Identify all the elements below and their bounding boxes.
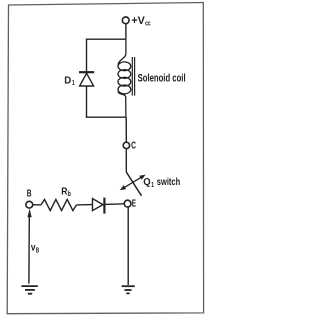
transistor Q1 switch blade — [126, 172, 141, 196]
svg-text:E: E — [132, 198, 136, 209]
wire top rail — [87, 39, 126, 72]
svg-text:D: D — [64, 74, 71, 86]
wire Vcc to top rail — [125, 24, 127, 39]
wire diode to node E — [104, 203, 124, 206]
svg-text:+V: +V — [131, 15, 145, 27]
wire E to ground — [127, 207, 129, 285]
svg-text:C: C — [131, 141, 136, 152]
resistor Rb — [41, 199, 77, 210]
label +Vcc — [131, 15, 150, 27]
node +Vcc terminal — [122, 17, 129, 24]
node C — [123, 142, 129, 148]
svg-text:switch: switch — [157, 177, 180, 188]
wire bottom rail to node C — [125, 117, 127, 142]
diode D1 — [79, 72, 94, 86]
svg-text:cc: cc — [145, 21, 151, 28]
node B — [26, 201, 33, 208]
svg-text:B: B — [27, 188, 32, 199]
svg-text:B: B — [36, 247, 39, 254]
inductor core — [132, 57, 134, 96]
wire C to switch — [125, 149, 127, 172]
wire B to resistor — [33, 204, 41, 206]
label D1 — [64, 74, 75, 87]
node E — [124, 200, 131, 207]
solenoid coil (inductor) — [118, 39, 131, 117]
label Q1 switch — [143, 177, 180, 189]
svg-text:Q: Q — [143, 177, 150, 188]
wire resistor to diode — [77, 204, 93, 206]
label Rb — [61, 186, 71, 198]
ground (left, below vB) — [21, 286, 37, 294]
source vB arrow — [27, 209, 31, 284]
ground (below E) — [122, 286, 135, 293]
svg-text:1: 1 — [151, 182, 154, 189]
svg-text:Solenoid coil: Solenoid coil — [138, 73, 186, 85]
label vB — [31, 243, 39, 255]
wire diode to bottom rail — [87, 86, 126, 117]
transistor Q1 switch motion arrow — [120, 175, 146, 191]
svg-text:b: b — [68, 191, 71, 198]
diode (base) — [93, 198, 105, 214]
svg-text:1: 1 — [72, 80, 75, 87]
